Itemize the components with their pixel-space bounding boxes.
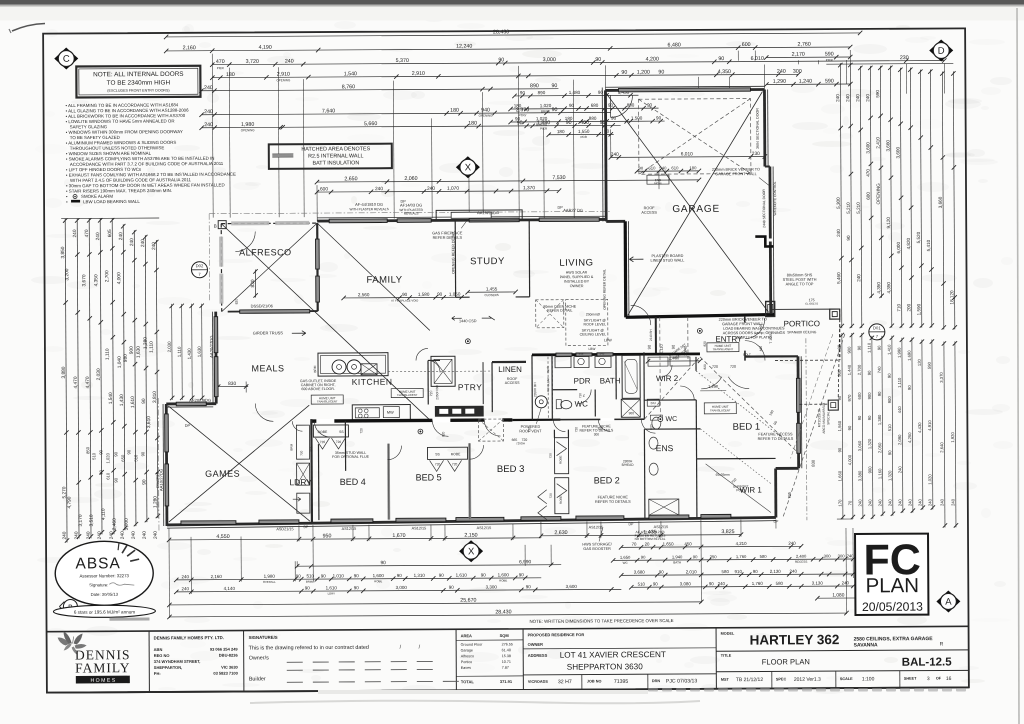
svg-text:1,240: 1,240 xyxy=(799,79,812,85)
svg-text:1,670: 1,670 xyxy=(392,533,405,539)
bed1 feature recess xyxy=(700,356,799,454)
svg-text:90: 90 xyxy=(113,451,118,456)
svg-text:SS: SS xyxy=(339,430,344,434)
scan artifact: page right edge xyxy=(1017,8,1019,724)
svg-text:820: 820 xyxy=(441,431,445,437)
svg-text:90: 90 xyxy=(519,572,525,577)
meals 830 dim xyxy=(216,385,248,387)
svg-text:1,480: 1,480 xyxy=(569,90,581,95)
svg-text:1,455: 1,455 xyxy=(486,286,498,291)
svg-text:1,370: 1,370 xyxy=(523,185,535,191)
svg-text:NOTE: ALL INTERNAL DOORS: NOTE: ALL INTERNAL DOORS xyxy=(93,71,183,79)
svg-text:AA1N/18DG: AA1N/18DG xyxy=(477,210,499,215)
svg-text:93 066 254 249: 93 066 254 249 xyxy=(210,647,239,652)
svg-text:1,650: 1,650 xyxy=(663,541,675,546)
svg-text:(MSP12 TOP PLATE): (MSP12 TOP PLATE) xyxy=(736,335,771,339)
svg-text:OPENING: OPENING xyxy=(876,183,881,205)
svg-text:1,500: 1,500 xyxy=(631,116,643,121)
svg-text:720: 720 xyxy=(549,493,553,498)
svg-text:Owner/s: Owner/s xyxy=(249,655,269,661)
right lower dim cluster lines xyxy=(842,333,843,519)
svg-text:610: 610 xyxy=(648,166,656,171)
svg-text:90: 90 xyxy=(595,57,601,63)
svg-text:240: 240 xyxy=(375,186,383,192)
portico dashed edges xyxy=(838,319,840,398)
svg-text:6,480: 6,480 xyxy=(668,42,681,48)
svg-text:1,980: 1,980 xyxy=(241,122,254,128)
eave dashed right of bed1 xyxy=(806,338,807,520)
svg-text:JOB NO: JOB NO xyxy=(587,679,602,683)
svg-text:1,050: 1,050 xyxy=(449,292,461,297)
svg-text:AAR27 DG: AAR27 DG xyxy=(563,208,583,213)
svg-text:880: 880 xyxy=(589,116,597,121)
svg-text:GARAGE: GARAGE xyxy=(672,204,720,215)
svg-text:795: 795 xyxy=(787,491,792,498)
svg-text:720: 720 xyxy=(336,440,342,444)
duct dashed lines xyxy=(547,357,549,418)
svg-text:VIC 3630: VIC 3630 xyxy=(221,665,238,670)
svg-text:90: 90 xyxy=(709,581,714,586)
svg-text:4,820: 4,820 xyxy=(906,237,911,249)
scan artifact: bottom smudges xyxy=(250,701,700,704)
svg-text:610: 610 xyxy=(671,165,679,170)
svg-text:1,080: 1,080 xyxy=(832,592,844,598)
svg-text:720: 720 xyxy=(730,365,736,369)
svg-text:3: 3 xyxy=(927,676,930,682)
svg-text:DP: DP xyxy=(185,424,191,428)
svg-text:90: 90 xyxy=(113,477,118,482)
svg-text:240: 240 xyxy=(777,69,786,75)
hume unit boxes xyxy=(311,395,343,404)
svg-text:90: 90 xyxy=(639,166,644,171)
svg-text:ADDRESS: ADDRESS xyxy=(528,653,548,658)
svg-text:2350H BH: 2350H BH xyxy=(435,384,439,399)
wall: meals left xyxy=(214,312,217,404)
wir2 shelves xyxy=(648,357,668,366)
robe bed5 xyxy=(428,447,468,459)
meals/kitchen diagonal xyxy=(317,222,430,331)
svg-text:BED 5: BED 5 xyxy=(416,472,442,482)
marker X top xyxy=(456,156,480,178)
svg-text:• LOWLITE WINDOWS TO HAVE 5mm: • LOWLITE WINDOWS TO HAVE 5mm ANNEALED O… xyxy=(66,118,175,124)
kitchen wall thick xyxy=(311,420,512,421)
svg-text:2,460: 2,460 xyxy=(112,518,118,530)
svg-text:3,660: 3,660 xyxy=(938,196,943,208)
svg-text:PLAN: PLAN xyxy=(865,574,919,597)
svg-text:SHEET: SHEET xyxy=(904,677,917,681)
svg-text:240: 240 xyxy=(790,569,798,574)
bottom wall window strips xyxy=(181,521,236,525)
svg-text:OPENING: OPENING xyxy=(479,114,494,118)
svg-text:1,540: 1,540 xyxy=(108,392,114,404)
svg-text:1,990: 1,990 xyxy=(897,347,902,358)
svg-text:890: 890 xyxy=(530,83,539,89)
du box xyxy=(647,399,659,406)
bath shower X xyxy=(621,399,640,417)
hall skylight dashed small xyxy=(478,419,503,441)
svg-text:600: 600 xyxy=(742,42,751,48)
svg-text:830: 830 xyxy=(228,381,236,387)
svg-text:510: 510 xyxy=(306,574,314,579)
svg-text:90: 90 xyxy=(551,83,557,89)
svg-text:71395: 71395 xyxy=(614,679,629,685)
svg-text:820: 820 xyxy=(309,446,313,452)
svg-text:90: 90 xyxy=(520,90,526,95)
svg-text:AS12/15: AS12/15 xyxy=(654,525,669,529)
garage centerline dashed xyxy=(687,317,689,359)
svg-text:CLOSERS: CLOSERS xyxy=(484,293,498,297)
svg-text:2340 BH: 2340 BH xyxy=(649,329,653,341)
svg-text:180: 180 xyxy=(557,129,565,134)
dim row top C xyxy=(212,60,944,64)
wall: bottom external xyxy=(167,517,776,525)
svg-text:TRANSLUCENT: TRANSLUCENT xyxy=(713,347,734,351)
wall: top main (family/study/living) xyxy=(317,219,606,221)
svg-text:4,470: 4,470 xyxy=(85,376,91,388)
svg-text:720: 720 xyxy=(578,393,582,398)
svg-text:3,850: 3,850 xyxy=(60,246,66,258)
svg-text:1,550: 1,550 xyxy=(578,129,590,134)
svg-text:90: 90 xyxy=(867,415,872,420)
svg-text:REVEALS: REVEALS xyxy=(404,212,419,216)
marker D02 xyxy=(191,262,207,278)
svg-text:25,670: 25,670 xyxy=(460,598,476,604)
svg-text:DP: DP xyxy=(557,206,563,210)
svg-text:ABSA: ABSA xyxy=(75,555,120,572)
B marker small xyxy=(63,599,77,613)
svg-text:450 CLEAR: 450 CLEAR xyxy=(546,377,550,392)
svg-text:3,130: 3,130 xyxy=(812,581,824,586)
svg-text:SPECIAL: SPECIAL xyxy=(826,411,830,425)
svg-text:AS12/15: AS12/15 xyxy=(589,525,604,529)
svg-text:ANGLE TO TOP: ANGLE TO TOP xyxy=(786,282,814,286)
svg-text:4,190: 4,190 xyxy=(259,45,272,51)
svg-text:90: 90 xyxy=(857,345,862,350)
svg-text:PIER: PIER xyxy=(217,66,225,70)
svg-text:BRM: BRM xyxy=(289,443,293,450)
svg-text:GIRDER TRUSS: GIRDER TRUSS xyxy=(253,330,284,335)
svg-text:AA20/27DG: AA20/27DG xyxy=(209,336,214,358)
svg-text:900: 900 xyxy=(887,396,892,404)
svg-text:4,000: 4,000 xyxy=(847,454,852,465)
entry door arcs vertical pair xyxy=(745,319,765,339)
svg-text:Signature:: Signature: xyxy=(89,582,108,587)
garage door arc xyxy=(610,95,632,117)
svg-text:LDRY: LDRY xyxy=(289,477,312,487)
svg-text:90: 90 xyxy=(98,469,103,474)
svg-text:BED 2: BED 2 xyxy=(594,475,620,485)
wall: garage outline xyxy=(605,88,764,92)
svg-text:720: 720 xyxy=(712,365,718,369)
wir1 interior xyxy=(706,463,771,512)
svg-text:240: 240 xyxy=(95,232,101,240)
door gaps corridor xyxy=(316,419,334,423)
svg-text:7,640: 7,640 xyxy=(322,108,335,114)
title block outer xyxy=(47,626,969,631)
svg-text:90: 90 xyxy=(753,569,758,574)
svg-text:3,000: 3,000 xyxy=(396,585,408,590)
svg-text:4,550: 4,550 xyxy=(216,534,229,540)
svg-text:4,110: 4,110 xyxy=(101,508,107,520)
svg-text:240: 240 xyxy=(858,499,863,507)
svg-text:240: 240 xyxy=(109,531,115,539)
svg-text:820: 820 xyxy=(649,424,653,430)
svg-text:1,430: 1,430 xyxy=(187,348,192,360)
svg-text:TRANSLUCENT: TRANSLUCENT xyxy=(317,399,338,403)
svg-text:590: 590 xyxy=(875,90,880,98)
dim row top B xyxy=(166,47,850,51)
svg-text:371.91: 371.91 xyxy=(500,679,513,684)
svg-text:830: 830 xyxy=(811,459,816,467)
svg-text:90: 90 xyxy=(621,70,627,76)
svg-text:3,200: 3,200 xyxy=(64,268,70,280)
dim row top F xyxy=(202,112,611,114)
svg-text:KITCHEN: KITCHEN xyxy=(352,377,393,387)
note box: internal doors xyxy=(76,66,200,98)
svg-text:90: 90 xyxy=(658,69,664,75)
svg-text:MST: MST xyxy=(721,678,730,682)
svg-text:PL: PL xyxy=(582,393,586,397)
svg-text:90: 90 xyxy=(402,292,408,297)
svg-text:170: 170 xyxy=(838,499,843,507)
bottom-right small rows xyxy=(621,546,801,547)
garage door opening strip xyxy=(618,88,750,92)
svg-text:6,990: 6,990 xyxy=(519,559,531,565)
svg-text:1,280: 1,280 xyxy=(143,337,149,349)
svg-text:4,000: 4,000 xyxy=(116,272,122,284)
svg-text:240: 240 xyxy=(868,499,873,507)
svg-text:90: 90 xyxy=(552,107,558,113)
bottom dim row 2 (240 2,160 ...) xyxy=(176,578,541,580)
svg-text:90: 90 xyxy=(659,569,664,574)
svg-text:OVERALL: OVERALL xyxy=(263,580,276,584)
svg-text:PROPOSED RESIDENCE FOR: PROPOSED RESIDENCE FOR xyxy=(528,632,585,637)
roof line diagonal alfresco-family xyxy=(221,222,430,421)
exterior wall double lines xyxy=(317,216,606,218)
svg-text:1,690: 1,690 xyxy=(907,350,912,361)
svg-text:B: B xyxy=(214,224,217,229)
svg-text:10.71: 10.71 xyxy=(502,660,511,664)
svg-text:BED 1: BED 1 xyxy=(733,422,761,433)
svg-text:510: 510 xyxy=(638,582,646,587)
svg-text:720: 720 xyxy=(435,462,441,466)
svg-text:2,160: 2,160 xyxy=(183,45,196,51)
svg-text:4,910: 4,910 xyxy=(927,420,932,431)
svg-text:ABCD-MU/MUA/MUB: ABCD-MU/MUA/MUB xyxy=(822,403,826,434)
svg-text:90: 90 xyxy=(354,585,360,590)
svg-text:450: 450 xyxy=(684,541,692,546)
svg-text:6,010: 6,010 xyxy=(751,56,764,62)
garage internal dims xyxy=(611,156,765,159)
svg-text:90: 90 xyxy=(449,585,455,590)
svg-text:Ground Floor: Ground Floor xyxy=(461,643,484,647)
svg-text:Portico: Portico xyxy=(461,660,473,664)
alfresco big arc xyxy=(235,231,255,251)
svg-text:LOT 41 XAVIER CRESCENT: LOT 41 XAVIER CRESCENT xyxy=(560,650,666,660)
svg-text:240: 240 xyxy=(928,498,933,506)
svg-text:CEILING LEVEL: CEILING LEVEL xyxy=(580,332,607,336)
svg-text:1,610: 1,610 xyxy=(130,396,136,408)
svg-text:90: 90 xyxy=(907,385,912,390)
extension lines from plan to bottom rows xyxy=(168,528,171,618)
wall: family west (alfresco east) xyxy=(316,223,319,311)
svg-text:4,140: 4,140 xyxy=(224,586,236,591)
svg-text:240: 240 xyxy=(856,274,861,282)
svg-text:7,530: 7,530 xyxy=(552,175,565,181)
svg-text:1,610: 1,610 xyxy=(326,585,338,590)
bottom dim row 1,080/1,680 xyxy=(817,597,901,599)
svg-text:90: 90 xyxy=(887,450,892,455)
svg-text:Assessor Number: 32273: Assessor Number: 32273 xyxy=(79,573,129,578)
dim row 600/240/240/1,070/1,370 xyxy=(317,191,559,192)
svg-text:SIGNATURE/S: SIGNATURE/S xyxy=(249,635,278,640)
svg-text:X: X xyxy=(468,546,475,557)
svg-text:240: 240 xyxy=(847,553,855,558)
svg-text:374 WYNDHAM STREET,: 374 WYNDHAM STREET, xyxy=(154,659,201,664)
svg-text:80x50mm SHS: 80x50mm SHS xyxy=(787,273,813,277)
svg-text:4,430: 4,430 xyxy=(917,422,922,433)
svg-text:720: 720 xyxy=(549,453,553,458)
svg-text:WIR 2: WIR 2 xyxy=(656,374,679,383)
svg-text:276.55: 276.55 xyxy=(502,642,513,646)
dim row top G xyxy=(202,125,621,127)
svg-text:2,700: 2,700 xyxy=(857,364,862,375)
svg-text:BAL-12.5: BAL-12.5 xyxy=(902,656,953,668)
svg-text:NOTE: WRITTEN DIMENSIONS TO TA: NOTE: WRITTEN DIMENSIONS TO TAKE PRECEDE… xyxy=(529,618,673,624)
svg-text:Garage: Garage xyxy=(461,648,473,652)
svg-text:ACCESS: ACCESS xyxy=(505,381,520,385)
svg-text:1,430: 1,430 xyxy=(119,394,125,406)
svg-text:FOR OPTIONAL FLUE: FOR OPTIONAL FLUE xyxy=(332,455,369,459)
svg-text:180: 180 xyxy=(689,165,697,170)
svg-text:1,610: 1,610 xyxy=(456,573,468,578)
svg-text:DP: DP xyxy=(400,200,406,204)
bottom info row xyxy=(771,671,773,688)
svg-text:4,250: 4,250 xyxy=(907,432,912,443)
svg-text:1,980: 1,980 xyxy=(264,574,276,579)
bed1 diagonal dotted xyxy=(696,370,780,436)
svg-text:240: 240 xyxy=(897,466,902,474)
svg-text:C: C xyxy=(63,54,70,65)
svg-text:REFER TO DETAILS: REFER TO DETAILS xyxy=(758,437,794,441)
svg-text:REFER TO DETAILS: REFER TO DETAILS xyxy=(580,428,614,432)
svg-text:CL OSETS: CL OSETS xyxy=(805,302,818,306)
svg-text:AT FIREPLACE VOID: AT FIREPLACE VOID xyxy=(391,299,418,303)
interior door arcs xyxy=(314,421,330,437)
svg-text:FAMILY: FAMILY xyxy=(75,660,130,675)
svg-text:REG NO: REG NO xyxy=(154,653,170,658)
svg-text:240: 240 xyxy=(72,229,78,237)
svg-text:SCALE: SCALE xyxy=(840,677,853,681)
svg-text:BED 3: BED 3 xyxy=(497,464,525,475)
svg-text:A: A xyxy=(945,597,952,608)
svg-text:820: 820 xyxy=(759,346,763,352)
svg-text:1,280: 1,280 xyxy=(153,496,159,508)
svg-text:510: 510 xyxy=(887,424,892,432)
svg-text:680: 680 xyxy=(591,103,599,108)
robe column bed3/bed2 xyxy=(554,438,568,474)
marker A xyxy=(936,590,960,612)
svg-text:90: 90 xyxy=(526,584,532,589)
svg-text:TO BE 2340mm HIGH: TO BE 2340mm HIGH xyxy=(107,79,171,86)
svg-text:510: 510 xyxy=(133,454,138,462)
svg-text:1,600: 1,600 xyxy=(498,572,510,577)
svg-text:R: R xyxy=(940,641,944,647)
svg-text:90: 90 xyxy=(126,449,131,454)
svg-text:1,410: 1,410 xyxy=(887,344,892,355)
wall: bed1 step bottom xyxy=(776,467,799,470)
svg-text:OPENING REFER DETAIL: OPENING REFER DETAIL xyxy=(602,269,606,310)
svg-text:2,060: 2,060 xyxy=(404,176,417,182)
scan artifact: dark top strip xyxy=(0,0,1024,5)
svg-text:TB 21/12/12: TB 21/12/12 xyxy=(736,677,763,683)
svg-text:AS12/15: AS12/15 xyxy=(342,527,357,531)
svg-text:OPENING: OPENING xyxy=(241,128,256,132)
ABSA stamp ellipse xyxy=(55,541,153,606)
svg-text:3,510: 3,510 xyxy=(89,514,95,526)
svg-text:240: 240 xyxy=(898,499,903,507)
svg-text:300: 300 xyxy=(594,432,600,436)
svg-text:BOLT: BOLT xyxy=(743,353,751,357)
svg-text:240: 240 xyxy=(142,531,148,539)
hall skylight dashed boxes xyxy=(536,300,564,328)
svg-text:1,240: 1,240 xyxy=(683,345,688,356)
svg-text:3,000: 3,000 xyxy=(124,518,130,530)
right upper dim cluster lines xyxy=(826,62,953,65)
ptry shelves bench xyxy=(435,406,483,416)
marker D01 xyxy=(869,324,885,340)
bottom dim row 1 (4,550 etc) xyxy=(169,538,541,540)
svg-text:240: 240 xyxy=(940,498,945,506)
svg-text:580: 580 xyxy=(760,554,768,559)
svg-text:240: 240 xyxy=(835,94,840,102)
svg-text:Alfresco: Alfresco xyxy=(461,654,474,658)
left secondary cluster xyxy=(171,304,174,400)
svg-text:X: X xyxy=(465,162,472,173)
svg-text:90: 90 xyxy=(296,574,302,579)
svg-text:720: 720 xyxy=(359,428,363,434)
svg-text:1,760: 1,760 xyxy=(752,581,764,586)
svg-text:900: 900 xyxy=(129,346,135,354)
svg-text:4,470: 4,470 xyxy=(73,376,79,388)
svg-text:720: 720 xyxy=(452,462,458,466)
wall: bed1 right external xyxy=(797,356,800,468)
svg-text:PJC 07/03/13: PJC 07/03/13 xyxy=(666,678,698,684)
svg-text:D02: D02 xyxy=(196,263,204,268)
svg-text:28,430: 28,430 xyxy=(493,29,509,35)
svg-text:HARTLEY 362: HARTLEY 362 xyxy=(750,632,840,648)
svg-text:2012 Ver1.3: 2012 Ver1.3 xyxy=(794,677,821,683)
svg-text:440: 440 xyxy=(897,406,902,414)
svg-text:590: 590 xyxy=(825,52,834,58)
svg-text:2,150: 2,150 xyxy=(464,533,477,539)
svg-text:1,590: 1,590 xyxy=(916,303,921,315)
star rating ellipse xyxy=(53,605,155,618)
svg-text:3604 SECTIONAL DOOR: 3604 SECTIONAL DOOR xyxy=(756,108,760,149)
svg-text:20/05/2013: 20/05/2013 xyxy=(862,600,923,614)
svg-text:950: 950 xyxy=(323,533,332,539)
svg-text:70: 70 xyxy=(848,500,853,505)
pdr/bath/wc partitions xyxy=(551,355,553,419)
svg-text:AREA: AREA xyxy=(461,633,472,638)
svg-text:590: 590 xyxy=(927,361,932,369)
smoke alarm symbols xyxy=(465,339,470,344)
svg-text:1,460: 1,460 xyxy=(669,355,680,360)
powered roof vent xyxy=(535,396,547,408)
svg-text:240: 240 xyxy=(855,94,860,102)
svg-text:70: 70 xyxy=(632,542,637,547)
svg-text:16: 16 xyxy=(946,676,952,682)
